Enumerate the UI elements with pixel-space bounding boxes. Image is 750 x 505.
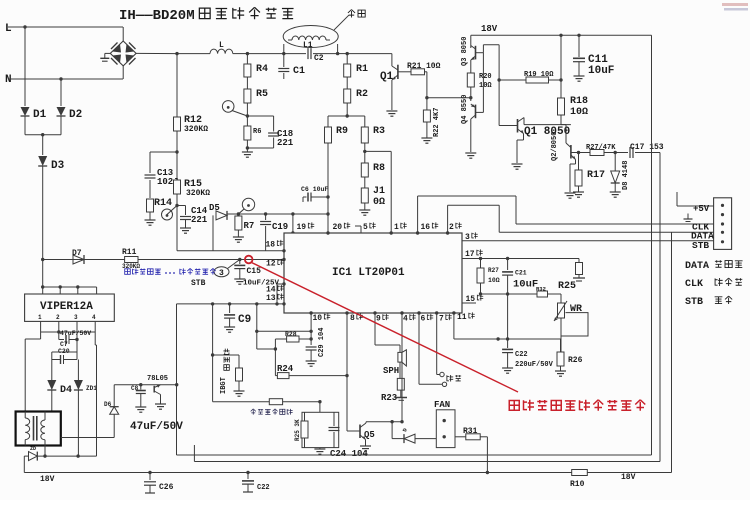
wire C17 out [635, 152, 660, 154]
svg-text:C22: C22 [257, 484, 270, 492]
resistor R27a [590, 150, 604, 156]
svg-text:10Ω: 10Ω [479, 82, 492, 90]
capacitor C18 [247, 115, 273, 117]
svg-text:C15: C15 [247, 267, 262, 276]
svg-text:R25: R25 [558, 281, 576, 292]
svg-text:10: 10 [313, 314, 323, 323]
wire pin18 row [177, 250, 284, 252]
bottom edge pin dots [309, 311, 312, 314]
wire row331 [257, 330, 311, 332]
resistor R30 sensor [236, 368, 243, 381]
svg-text:R27/47K: R27/47K [586, 144, 616, 152]
svg-text:78L05: 78L05 [147, 375, 168, 383]
resistor R31 [455, 436, 466, 438]
svg-text:19: 19 [297, 223, 307, 232]
wire R4-C1node [247, 53, 283, 55]
wire pin11 route [453, 313, 455, 339]
junction c21 bot [506, 292, 509, 295]
svg-text:Q1: Q1 [380, 71, 394, 83]
resistor R32 [537, 291, 548, 297]
wire pin9 down [374, 313, 376, 345]
svg-text:221: 221 [277, 138, 294, 148]
junction D7 node [41, 258, 44, 261]
wire L-R4 [233, 53, 248, 55]
rail3 left riser [23, 456, 25, 472]
resistor R17 [578, 153, 580, 171]
junction reg out [175, 383, 178, 386]
wire N up to bridge [122, 66, 124, 79]
svg-text:221: 221 [191, 215, 208, 225]
wire xfmr sec [44, 446, 46, 457]
test point circle TP2 [222, 101, 234, 113]
ground R26 [555, 370, 566, 372]
test point circle TP1 [162, 209, 173, 220]
resistor R18 [558, 98, 565, 115]
svg-text:ZD: ZD [30, 446, 36, 452]
svg-text:R9: R9 [336, 126, 348, 137]
junction coil right [336, 52, 339, 55]
coil pan L1 [283, 26, 338, 48]
svg-text:17: 17 [465, 250, 475, 259]
wire to R3 [347, 115, 365, 117]
junction R2 bottom [346, 114, 349, 117]
svg-text:N: N [5, 74, 12, 86]
ground R17 [573, 191, 584, 193]
regulator 78L05 [153, 386, 155, 393]
junction pin13-c9 [228, 302, 231, 305]
rail3 18V [24, 472, 571, 474]
capacitor C22a [507, 294, 509, 348]
svg-text:16: 16 [421, 223, 431, 232]
svg-text:10Ω: 10Ω [488, 277, 500, 284]
svg-text:D4: D4 [60, 385, 72, 396]
junction pin17-c21 [506, 257, 509, 260]
resistor R11 [125, 257, 138, 263]
resistor R28 [287, 336, 299, 342]
junction R17 top [577, 151, 580, 154]
ground J1 [359, 209, 370, 211]
wire 18V rail [471, 34, 652, 36]
wire R17-gnd [578, 186, 580, 192]
wire to R19 [499, 79, 526, 81]
junction pin16 [416, 231, 419, 234]
VIPER pin stubs bottom [40, 321, 42, 332]
svg-text:10Ω: 10Ω [570, 107, 588, 118]
svg-text:Q3 8050: Q3 8050 [461, 37, 469, 66]
wire R32-WR [548, 293, 562, 295]
svg-text:R3: R3 [373, 126, 385, 137]
wire reg row [114, 384, 177, 386]
wire row349 [257, 348, 276, 350]
svg-text:C2: C2 [314, 54, 324, 63]
svg-text:R5: R5 [256, 89, 268, 100]
junction C11 rail [577, 34, 580, 37]
svg-text:320KΩ: 320KΩ [184, 125, 208, 134]
rail1 gnd [177, 454, 652, 456]
wire sensor branch [213, 354, 239, 356]
wire xfmr aux tap [61, 437, 114, 439]
wire base row [427, 97, 471, 99]
svg-text:D7: D7 [72, 249, 82, 258]
wire pin8 down [346, 313, 348, 431]
svg-text:C7: C7 [60, 341, 68, 348]
capacitor C20 [56, 359, 60, 361]
junction R6 bottom [246, 146, 249, 149]
wire rail to Q1 [347, 53, 392, 55]
wire coil right down [337, 44, 339, 54]
resistor R27b [480, 259, 482, 269]
wire pin1 route [365, 150, 391, 152]
svg-text:C29 104: C29 104 [318, 328, 326, 357]
svg-text:R26: R26 [568, 356, 583, 365]
svg-text:3: 3 [465, 233, 470, 242]
capacitor C21 [507, 259, 509, 271]
thermistor box [302, 412, 339, 447]
resistor R14 [147, 199, 154, 212]
junction vt2 [59, 285, 62, 288]
svg-text:9: 9 [376, 315, 381, 324]
wire viper row332 [41, 331, 96, 333]
junction L-D1 [23, 25, 26, 28]
junction C19 top [264, 212, 267, 215]
diode D6 [113, 414, 115, 437]
junction R7 top [237, 212, 240, 215]
svg-text:C8: C8 [131, 385, 139, 392]
wire C13-R14 [149, 180, 151, 198]
svg-text:Q5: Q5 [364, 430, 375, 440]
capacitor C29 [310, 339, 312, 345]
junction pin13-pin14 [275, 302, 278, 305]
svg-text:7: 7 [439, 315, 444, 324]
wire R25 gnd [578, 275, 580, 279]
wire pin4 down [401, 313, 403, 422]
VIPER12A box [25, 294, 115, 321]
junction pin1 [390, 231, 393, 234]
resistor R23 [397, 378, 404, 390]
wire pin12 row [43, 259, 284, 261]
svg-text:J1: J1 [373, 186, 385, 197]
svg-text:D6: D6 [104, 401, 112, 408]
diode D10 relay [24, 455, 28, 457]
watermark top-right [722, 3, 748, 6]
wire pin3 route [462, 240, 714, 242]
svg-text:R6: R6 [253, 128, 261, 136]
capacitor C11 [578, 35, 580, 57]
junction R4 [246, 52, 249, 55]
svg-text:18V: 18V [621, 473, 636, 482]
FAN box [436, 410, 455, 448]
svg-text:18: 18 [266, 241, 276, 250]
svg-text:220uF/50V: 220uF/50V [515, 361, 554, 369]
riser right 1 [651, 35, 653, 455]
svg-text:STB: STB [692, 240, 709, 251]
resistor R12 [174, 117, 181, 131]
transformer coils [25, 418, 30, 440]
svg-text:STB: STB [685, 297, 703, 308]
wire pin7 down [436, 313, 438, 375]
svg-text:CLK: CLK [685, 279, 703, 290]
junction R31-rail [486, 471, 489, 474]
junction v2 [75, 338, 78, 341]
rail3 cont [587, 472, 671, 474]
junction pin19 row [291, 212, 294, 215]
junction R9-row [326, 212, 329, 215]
wire fan diode [391, 422, 393, 439]
wire Q1b base [499, 125, 517, 127]
junction D3 top [41, 133, 44, 136]
floating circle 2 [442, 382, 446, 386]
junction rail R18 [559, 34, 562, 37]
capacitor C6 [303, 196, 307, 198]
capacitor C1 [283, 54, 285, 67]
ground Q4 [465, 152, 476, 154]
wire pin10 down [310, 313, 312, 339]
resistor R19 [526, 77, 549, 83]
row294 [481, 293, 538, 295]
capacitor C26 [149, 473, 151, 481]
ground Q2 [565, 192, 576, 194]
junction C6-R9 [326, 195, 329, 198]
connector CN1 [714, 198, 732, 250]
svg-text:WR: WR [570, 304, 582, 315]
wire pin16 route [417, 196, 419, 233]
wire reg to ic [176, 304, 178, 455]
svg-text:SPH: SPH [383, 366, 399, 376]
ground box [319, 448, 321, 449]
ellipse marker 3 [214, 267, 229, 277]
wire drive row [524, 124, 571, 126]
svg-text:C21: C21 [515, 270, 527, 277]
wire R5-R6 [246, 103, 248, 126]
resistor R25t [301, 421, 308, 438]
wire R18 top [560, 35, 562, 98]
VIPER pin stubs top [42, 287, 44, 294]
transformer box [16, 412, 61, 446]
wire pin14 stub [277, 283, 284, 285]
junction pin13-a [211, 302, 214, 305]
label thermistor cn [251, 409, 256, 415]
wire R19-R18 [549, 79, 562, 81]
IC1 LT20P01 box [284, 233, 462, 313]
svg-text:C1: C1 [293, 66, 305, 77]
wire x275 down [274, 339, 276, 376]
svg-text:D5: D5 [209, 203, 220, 213]
red circle marker [245, 256, 253, 264]
svg-text:DATA: DATA [685, 261, 709, 272]
junction C8 top [139, 383, 142, 386]
svg-text:Q4 8550: Q4 8550 [461, 95, 469, 124]
junction N-D2 [59, 77, 62, 80]
wire Rt-box [283, 401, 320, 403]
junction base row [425, 96, 428, 99]
wire bridge out [136, 52, 177, 54]
wire R12 top [176, 54, 178, 117]
wire R30-gnd [238, 381, 240, 391]
resistor R6 [244, 126, 251, 140]
resistor R7 [235, 216, 242, 230]
svg-text:R27: R27 [488, 267, 499, 274]
transistor Q1b [517, 119, 519, 133]
IC left edge dots [282, 249, 285, 252]
svg-text:47uF/50V: 47uF/50V [130, 421, 183, 433]
resistor R2 [346, 77, 348, 89]
svg-text:47uF/50V: 47uF/50V [60, 330, 91, 337]
svg-text:R20: R20 [479, 73, 492, 81]
wire R21 out [425, 71, 427, 73]
junction v1 [57, 330, 60, 333]
wire emitters column [498, 45, 500, 126]
junction R19 in [497, 78, 500, 81]
svg-text:320KΩ: 320KΩ [186, 189, 210, 198]
junction R6 top [246, 114, 249, 117]
svg-text:+5V: +5V [693, 204, 710, 214]
junction box top [318, 400, 321, 403]
svg-text:1: 1 [394, 223, 399, 232]
diode D5 [212, 215, 214, 250]
capacitor C24 [333, 412, 335, 426]
junction vt3 [76, 285, 79, 288]
svg-text:D3: D3 [51, 160, 65, 172]
capacitor C2 series [284, 53, 306, 55]
svg-text:15: 15 [466, 295, 476, 304]
resistor R26 [557, 352, 564, 366]
junction pin2 [446, 231, 449, 234]
wire R12-R15 [176, 131, 178, 180]
diode D9 fan [404, 434, 415, 443]
capacitor C8 [140, 385, 142, 390]
junction pin19 [291, 231, 294, 234]
resistor R1 [346, 54, 348, 64]
resistor R9 [325, 127, 332, 143]
svg-text:L: L [5, 23, 12, 35]
resistor R3 [361, 127, 368, 143]
bridge left stub [105, 52, 111, 54]
svg-text:10uF: 10uF [588, 65, 614, 77]
rail2 [194, 461, 660, 463]
wire wr down [560, 336, 562, 352]
svg-text:2: 2 [449, 223, 454, 232]
floating circle 1 [440, 372, 444, 376]
wire Q3 collector [470, 35, 472, 48]
junction pin20 [326, 231, 329, 234]
svg-text:C22: C22 [515, 351, 528, 359]
wire R3-R8 [364, 143, 366, 163]
svg-text:3: 3 [219, 269, 224, 278]
svg-text:R17: R17 [587, 170, 605, 181]
svg-text:C19: C19 [272, 222, 288, 232]
ground Q1b [512, 163, 523, 165]
svg-text:R24: R24 [277, 364, 294, 374]
svg-text:R28: R28 [285, 331, 297, 338]
svg-text:6: 6 [421, 315, 426, 324]
junction R28 right [309, 337, 312, 340]
junction base drive [469, 96, 472, 99]
svg-text:C17 153: C17 153 [630, 143, 664, 152]
resistor R20 [467, 73, 474, 87]
diode D3 [42, 135, 44, 155]
wire pin13 row [177, 303, 285, 305]
junction C26 [148, 471, 151, 474]
wire row402 [213, 401, 270, 403]
ground R6 [242, 151, 253, 153]
riser right 3 [671, 232, 673, 472]
ground R25 [573, 277, 585, 279]
note voltage test point blue [125, 269, 131, 274]
wire D3 to bus [42, 260, 44, 288]
capacitor C9 [229, 304, 231, 313]
resistor R4 [246, 54, 248, 64]
svg-text:R4: R4 [256, 64, 268, 75]
wire Q1 base [398, 71, 411, 73]
inductor L [177, 53, 210, 55]
wire pin6 down [418, 313, 420, 384]
wire c20 left [52, 351, 77, 353]
svg-text:R25 3K: R25 3K [294, 419, 301, 441]
transistor Q5 [359, 425, 361, 439]
wire C1node up-coil [283, 44, 285, 54]
wire D1-D2 join [25, 134, 61, 136]
wire Q2 base [571, 152, 590, 154]
capacitor C7 [58, 332, 60, 340]
wire to R9 [328, 115, 347, 117]
wire R27a out [604, 152, 628, 154]
junction x256-row331 [255, 330, 258, 333]
svg-text:D1: D1 [33, 109, 47, 121]
svg-text:10Ω: 10Ω [426, 62, 441, 71]
ground R7 [233, 236, 244, 238]
svg-text:R14: R14 [154, 198, 172, 209]
wire N line [8, 78, 123, 80]
junction relay row [76, 454, 79, 457]
junction pin13-b [255, 302, 258, 305]
svg-text:11: 11 [457, 313, 467, 322]
svg-text:C6 10uF: C6 10uF [301, 186, 328, 193]
junction R18 mid [559, 78, 562, 81]
wire R6-gnd [246, 140, 248, 152]
test point circle TP3 [242, 198, 254, 210]
wire +5V [677, 205, 714, 207]
svg-text:18V: 18V [481, 24, 498, 34]
wire R23-gnd [400, 390, 402, 397]
junction C22b [246, 471, 249, 474]
wire C14-gnd [185, 220, 187, 228]
svg-text:R2: R2 [356, 89, 368, 100]
junction C17 in [614, 151, 617, 154]
junction R3 bottom [363, 150, 366, 153]
svg-text:D8 4148: D8 4148 [622, 161, 630, 190]
wire Q3 base [476, 52, 484, 54]
svg-text:C24 104: C24 104 [330, 449, 368, 459]
ground D8 [610, 191, 621, 193]
wire pin5 stub [355, 225, 361, 227]
svg-text:C26: C26 [159, 483, 174, 492]
wire into box [319, 402, 321, 413]
wire x212 down [212, 304, 214, 402]
junction fanrow2 [390, 420, 393, 423]
svg-text:R8: R8 [373, 163, 385, 174]
svg-text:10uF: 10uF [513, 279, 538, 291]
diode D7 [73, 255, 84, 264]
junction R1 [346, 52, 349, 55]
capacitor C15 [239, 260, 241, 265]
resistor R24 [277, 373, 289, 379]
ground R22 [421, 137, 432, 139]
resistor R10 [572, 470, 588, 476]
wire R22-gnd [426, 122, 428, 138]
wire R2 down [346, 103, 348, 116]
diode D1 [24, 27, 26, 106]
svg-text:12: 12 [266, 260, 276, 269]
